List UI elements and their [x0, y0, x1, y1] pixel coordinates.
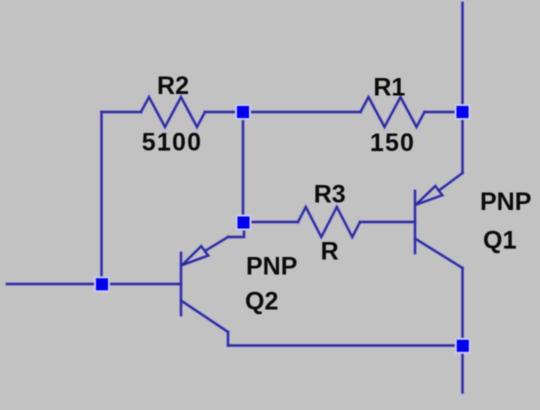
- wire: bottom rail to node N5: [228, 344, 463, 346]
- transistor Q1: [415, 173, 463, 268]
- label Q1: [483, 227, 516, 255]
- wire: top feed vertical into node N2: [461, 3, 463, 112]
- svg-text:R: R: [321, 238, 339, 266]
- wire: R2 right lead to node N1: [205, 111, 243, 113]
- wire: node N4 to Q2 base: [102, 283, 181, 285]
- wire: Q1 collector down to node N5: [461, 268, 463, 346]
- wire: R2 left lead from corner: [102, 111, 142, 113]
- wire: left rail vertical: [100, 112, 102, 284]
- svg-text:Q1: Q1: [483, 227, 516, 255]
- svg-text:R1: R1: [373, 74, 405, 102]
- resistor R1: [361, 97, 425, 127]
- resistor R2: [141, 97, 205, 127]
- label PNP for Q1: [480, 188, 531, 216]
- wire: Q1 emitter up to node N2: [461, 112, 463, 173]
- node N1 junction: [236, 105, 250, 119]
- wire: node N1 to R1 left lead: [243, 111, 361, 113]
- wire: node N1 down to node N3: [242, 112, 244, 222]
- svg-text:R2: R2: [157, 72, 189, 100]
- label R1: [373, 74, 405, 102]
- wire: Q2 emitter elbow up to node N3: [228, 222, 244, 237]
- transistor Q2: [181, 237, 228, 332]
- label R2: [157, 72, 189, 100]
- svg-text:R3: R3: [314, 181, 346, 209]
- wire: R1 right lead to node N2: [425, 111, 463, 113]
- svg-text:5100: 5100: [142, 129, 202, 157]
- wire: bottom output stub below node N5: [461, 346, 463, 393]
- node N2 junction: [456, 105, 470, 119]
- value 150: [370, 129, 415, 157]
- label Q2: [245, 288, 278, 316]
- node N5 junction: [456, 339, 470, 353]
- value 5100: [142, 129, 202, 157]
- node N3 junction: [237, 216, 251, 230]
- wire: node N3 to R3 left lead: [243, 221, 298, 223]
- wire: R3 right lead to Q1 base: [360, 221, 415, 223]
- label R3: [314, 181, 346, 209]
- node N4 junction: [95, 277, 109, 291]
- svg-text:150: 150: [370, 129, 415, 157]
- wire: Q2 collector elbow down: [227, 332, 229, 346]
- resistor R3: [298, 207, 360, 237]
- wire: left input stub to node N4: [7, 283, 102, 285]
- value R: [321, 238, 339, 266]
- label PNP for Q2: [246, 253, 297, 281]
- svg-text:PNP: PNP: [246, 253, 297, 281]
- svg-text:Q2: Q2: [245, 288, 278, 316]
- svg-text:PNP: PNP: [480, 188, 531, 216]
